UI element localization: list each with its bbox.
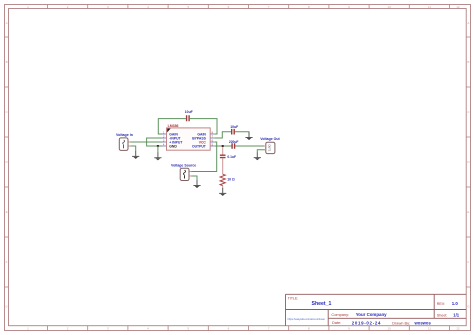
junction dot (GND net) [157, 145, 159, 147]
svg-text:12: 12 [456, 326, 460, 330]
title block [286, 294, 467, 325]
svg-text:0.1uF: 0.1uF [227, 155, 236, 159]
capacitor C2 10uF (bypass) [232, 129, 235, 135]
svg-text:Sheet:: Sheet: [437, 314, 448, 318]
svg-text:220uF: 220uF [229, 140, 239, 144]
ground (R1) [219, 188, 226, 196]
wire net OUTPUT [214, 145, 266, 147]
svg-text:Voltage In: Voltage In [116, 133, 133, 137]
capacitor C4 220uF [232, 143, 235, 149]
svg-text:OUT1: OUT1 [268, 144, 272, 151]
svg-text:woswos: woswos [414, 320, 432, 325]
wire Voltage In pin2 to ground [128, 146, 136, 151]
junction dot (output) [222, 145, 224, 147]
capacitor C5 0.1uF [220, 155, 226, 157]
svg-text:10uF: 10uF [230, 125, 238, 129]
IC pin numbers [163, 131, 214, 146]
source pin stubs [128, 142, 266, 176]
svg-text:12: 12 [456, 5, 460, 9]
wire Voltage Out pin2 to ground [257, 150, 266, 153]
svg-text:F: F [6, 260, 8, 264]
IC pin stubs left [162, 134, 166, 146]
svg-text:1.0: 1.0 [452, 301, 459, 306]
svg-text:https://easyeda.com/account/us: https://easyeda.com/account/user [288, 318, 326, 321]
wire net VCC from Voltage Source [189, 142, 217, 172]
ground (Voltage In) [132, 151, 139, 159]
svg-text:A: A [467, 21, 469, 25]
wire R1 to ground [222, 186, 224, 189]
wire net -INPUT to GND [147, 138, 167, 146]
ground (Voltage Source) [193, 180, 200, 188]
svg-text:1/1: 1/1 [453, 313, 459, 318]
resistor R1 10 Ohm [220, 174, 225, 185]
svg-text:Date:: Date: [332, 320, 341, 325]
wire net +INPUT from Voltage In [128, 141, 166, 143]
wire net GAIN1-C1-GAIN8 [158, 119, 217, 134]
svg-text:Voltage Source: Voltage Source [171, 164, 196, 168]
svg-text:OUTPUT: OUTPUT [192, 144, 207, 148]
svg-text:Company:: Company: [331, 312, 349, 317]
svg-text:10 Ω: 10 Ω [227, 178, 235, 182]
svg-text:Your Company: Your Company [356, 312, 387, 317]
svg-text:F: F [467, 260, 469, 264]
ground (IC GND) [154, 152, 161, 160]
svg-text:10uF: 10uF [185, 110, 193, 114]
svg-text:11: 11 [428, 5, 431, 9]
svg-text:11: 11 [428, 326, 431, 330]
svg-text:LM386: LM386 [168, 124, 179, 128]
svg-text:10: 10 [388, 5, 392, 9]
svg-text:10: 10 [388, 326, 392, 330]
wire C5 to R1 [222, 158, 224, 174]
svg-text:E: E [6, 210, 8, 214]
wire output dot down to C5 [222, 147, 224, 155]
IC pin stubs right [210, 134, 214, 146]
ground (Voltage Out) [254, 152, 261, 160]
svg-text:2019-02-24: 2019-02-24 [352, 320, 381, 325]
svg-text:Voltage Out: Voltage Out [260, 137, 280, 141]
svg-text:TITLE:: TITLE: [288, 297, 299, 301]
wire gnd stem [157, 146, 159, 152]
wire Voltage Source pin2 to ground [189, 176, 197, 180]
svg-text:B: B [467, 60, 469, 64]
svg-text:A: A [6, 21, 8, 25]
svg-text:B: B [6, 60, 8, 64]
capacitor C1 10uF (top) [187, 115, 190, 121]
svg-text:Drawn By:: Drawn By: [392, 320, 410, 325]
IC pin labels [169, 132, 207, 148]
wire net BYPASS to C2 [214, 132, 249, 138]
svg-text:E: E [467, 210, 469, 214]
svg-text:GND: GND [169, 144, 177, 148]
svg-text:Sheet_1: Sheet_1 [312, 301, 332, 307]
svg-text:REV:: REV: [437, 302, 445, 306]
ground (bypass) [245, 132, 252, 140]
